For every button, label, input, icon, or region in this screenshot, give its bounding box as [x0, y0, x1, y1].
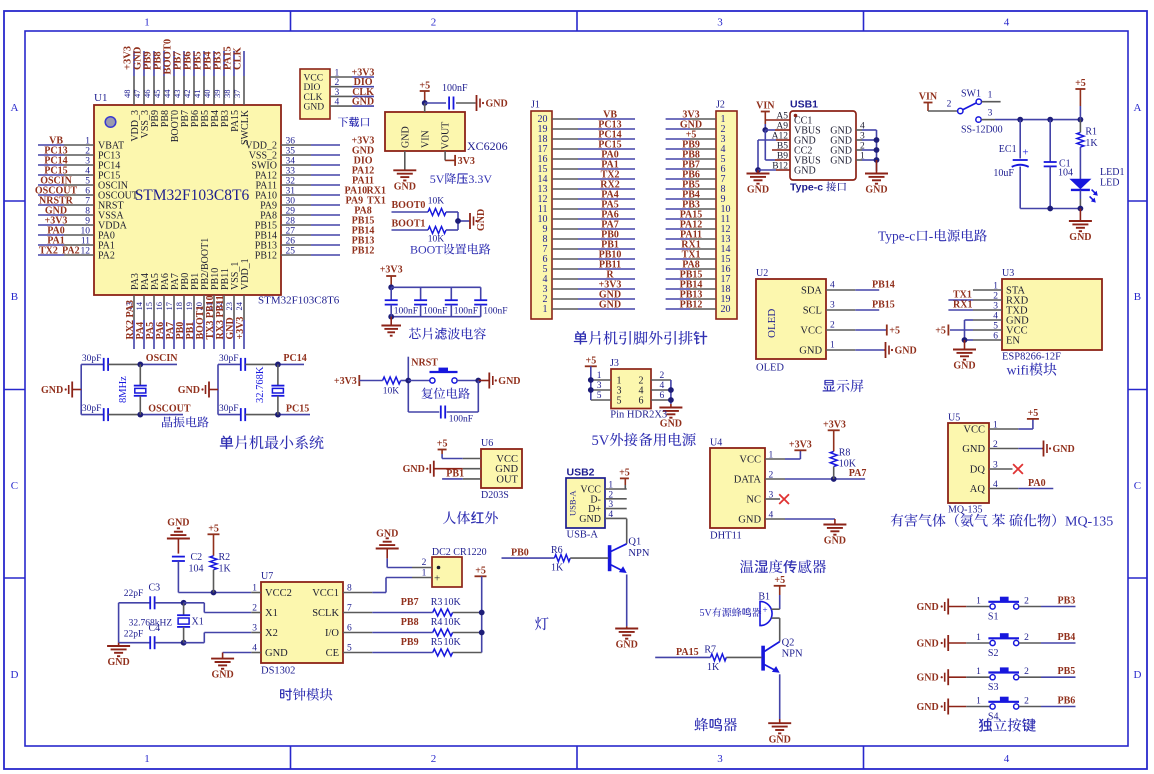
capacitor 100nF filter 2 — [420, 287, 422, 300]
svg-text:PC15: PC15 — [286, 403, 309, 414]
svg-text:1: 1 — [144, 17, 150, 29]
caption MCU pin headers — [574, 331, 588, 345]
svg-text:PB12: PB12 — [255, 251, 277, 262]
junction — [422, 100, 428, 106]
wire right gnd bus — [876, 130, 878, 171]
svg-text:R7: R7 — [704, 645, 716, 656]
svg-text:J1: J1 — [531, 100, 540, 111]
svg-text:23: 23 — [224, 302, 234, 311]
svg-text:2: 2 — [85, 147, 90, 157]
pin A12 wire — [776, 139, 790, 141]
svg-text:30pF: 30pF — [219, 354, 239, 364]
svg-text:MQ-135: MQ-135 — [1065, 515, 1113, 530]
net PB1 — [442, 478, 463, 480]
svg-text:R8: R8 — [839, 448, 851, 459]
wire bottom rail — [1020, 208, 1080, 210]
svg-text:PB15: PB15 — [872, 300, 895, 311]
svg-text:+5: +5 — [419, 81, 430, 92]
svg-text:6: 6 — [639, 396, 644, 407]
svg-text:USB-A: USB-A — [567, 530, 599, 541]
svg-text:PB4: PB4 — [1058, 632, 1076, 643]
svg-text:VCC1: VCC1 — [312, 588, 339, 599]
svg-text:DIO: DIO — [304, 83, 321, 93]
wire to X2 pin — [184, 642, 205, 644]
wire vcc2 — [178, 592, 251, 594]
pin GND wire — [973, 319, 1002, 321]
svg-text:1: 1 — [85, 137, 90, 147]
svg-text:4: 4 — [85, 167, 90, 177]
svg-text:6: 6 — [85, 187, 90, 197]
svg-text:1: 1 — [976, 697, 981, 707]
svg-text:SDA: SDA — [801, 286, 822, 297]
svg-text:GND: GND — [794, 166, 816, 177]
svg-text:10K: 10K — [383, 387, 400, 397]
caption xiazaikou — [338, 117, 348, 127]
svg-text:MQ-135: MQ-135 — [948, 505, 982, 516]
resistor R7 1K — [711, 654, 727, 661]
svg-text:PB9: PB9 — [401, 637, 419, 648]
connector download port — [300, 69, 330, 119]
svg-text:PB12: PB12 — [680, 300, 703, 311]
svg-text:104: 104 — [189, 564, 204, 575]
svg-text:DC2 CR1220: DC2 CR1220 — [432, 547, 487, 558]
svg-text:4: 4 — [1004, 753, 1010, 765]
net PB14 — [855, 289, 879, 291]
svg-text:GND: GND — [917, 673, 939, 684]
svg-text:10K: 10K — [839, 459, 857, 470]
svg-text:PB12: PB12 — [352, 246, 375, 257]
svg-text:8: 8 — [85, 207, 90, 217]
svg-text:35: 35 — [286, 147, 296, 157]
connector USB2 USB-A — [566, 478, 605, 528]
svg-text:104: 104 — [1058, 168, 1073, 179]
svg-text:1: 1 — [830, 341, 835, 351]
svg-text:47: 47 — [132, 90, 142, 99]
svg-text:38: 38 — [222, 90, 232, 99]
crystal — [139, 364, 141, 385]
svg-text:CE: CE — [326, 648, 339, 659]
svg-text:U6: U6 — [481, 438, 493, 449]
svg-text:1K: 1K — [1085, 138, 1098, 149]
svg-text:GND: GND — [769, 734, 791, 745]
resistor R5 10K — [433, 649, 453, 656]
svg-text:GND: GND — [352, 97, 374, 108]
capacitor C2 104 — [172, 556, 185, 558]
pin A5 stub — [765, 119, 790, 121]
svg-text:100nF: 100nF — [423, 307, 447, 317]
svg-text:VDD_1: VDD_1 — [240, 258, 251, 290]
wire left — [118, 603, 120, 643]
svg-text:GND: GND — [865, 185, 887, 196]
svg-text:PC14: PC14 — [283, 353, 306, 364]
svg-text:X1: X1 — [192, 617, 204, 628]
pin3 NC no-connect — [765, 498, 780, 500]
svg-text:+5: +5 — [619, 468, 630, 479]
svg-text:GND: GND — [167, 518, 189, 529]
caption display — [823, 380, 836, 392]
caption harmful gas MQ-135 — [891, 514, 904, 527]
svg-text:25: 25 — [286, 247, 296, 257]
svg-text:PA9: PA9 — [346, 196, 364, 207]
svg-text:DQ: DQ — [970, 465, 986, 476]
svg-text:22pF: 22pF — [124, 630, 144, 640]
svg-text:39: 39 — [212, 90, 222, 99]
svg-text:U5: U5 — [948, 413, 960, 424]
net top — [278, 363, 304, 365]
resistor 10K boot0 — [428, 209, 446, 216]
svg-text:2: 2 — [431, 17, 437, 29]
svg-text:XC6206: XC6206 — [467, 139, 508, 153]
svg-text:GND: GND — [1069, 232, 1091, 243]
svg-text:R2: R2 — [219, 552, 231, 563]
svg-text:+5: +5 — [475, 566, 486, 577]
svg-text:+3V3: +3V3 — [235, 317, 246, 340]
svg-text:USB-A: USB-A — [568, 490, 578, 516]
svg-text:+5: +5 — [1028, 408, 1039, 419]
svg-text:USB1: USB1 — [790, 99, 818, 111]
svg-text:LED: LED — [1100, 178, 1119, 189]
svg-text:PA0: PA0 — [1028, 478, 1046, 489]
U1 right pins 25-36 — [281, 144, 311, 146]
svg-text:100nF: 100nF — [483, 307, 507, 317]
pin VOUT to 3V3 — [444, 151, 446, 160]
svg-text:10uF: 10uF — [993, 168, 1014, 179]
svg-text:34: 34 — [286, 157, 296, 167]
ground — [834, 519, 836, 525]
svg-text:1: 1 — [543, 304, 548, 315]
ground — [71, 382, 73, 398]
svg-text:DATA: DATA — [734, 475, 762, 486]
transistor Q1 NPN — [608, 545, 612, 571]
pir sensor U6 D203S — [481, 449, 522, 488]
svg-text:C: C — [1134, 480, 1141, 492]
svg-text:S3: S3 — [988, 682, 999, 693]
caption human infrared — [443, 511, 456, 524]
svg-text:EC1: EC1 — [999, 144, 1017, 155]
svg-text:PB8: PB8 — [401, 617, 419, 628]
svg-text:D203S: D203S — [481, 490, 509, 501]
svg-text:VCC: VCC — [963, 425, 985, 436]
crystal — [277, 364, 279, 385]
svg-text:R6: R6 — [551, 545, 563, 556]
svg-text:20: 20 — [721, 304, 731, 315]
svg-text:GND: GND — [962, 444, 985, 455]
svg-text:VIN: VIN — [421, 130, 432, 148]
svg-text:8MHz: 8MHz — [118, 376, 129, 403]
pin A9 wire — [765, 129, 775, 131]
svg-text:U1: U1 — [94, 92, 107, 104]
svg-text:Type-c: Type-c — [878, 229, 915, 244]
battery DC2 CR1220 — [432, 557, 462, 587]
ground right — [876, 160, 878, 174]
caption chip filter caps — [409, 328, 421, 339]
capacitor C1 104 — [1049, 120, 1051, 162]
svg-text:PB6: PB6 — [1058, 696, 1076, 707]
svg-text:GND: GND — [799, 346, 822, 357]
svg-text:-: - — [929, 229, 934, 244]
connector J3 Pin HDR2X3 — [611, 369, 651, 409]
ground — [433, 461, 435, 477]
svg-text:J2: J2 — [716, 100, 725, 111]
svg-text:GND: GND — [824, 536, 846, 547]
resistor 10K boot1 — [428, 227, 446, 234]
svg-text:48: 48 — [122, 90, 132, 99]
svg-text:PB3: PB3 — [1058, 596, 1076, 607]
svg-text:R3: R3 — [431, 597, 443, 608]
svg-text:6: 6 — [660, 391, 665, 401]
ground — [1079, 209, 1081, 222]
svg-text:5V: 5V — [592, 433, 610, 449]
svg-text:28: 28 — [286, 217, 296, 227]
svg-text:PB5: PB5 — [1058, 666, 1076, 677]
ground left — [757, 170, 759, 174]
gas sensor U5 MQ-135 — [948, 423, 989, 503]
svg-text:C3: C3 — [149, 583, 161, 594]
svg-text:D: D — [11, 669, 19, 681]
svg-text:1: 1 — [976, 667, 981, 677]
svg-text:1K: 1K — [707, 662, 720, 673]
svg-text:2: 2 — [1024, 597, 1029, 607]
svg-text:S2: S2 — [988, 648, 999, 659]
svg-text:PA15: PA15 — [676, 647, 699, 658]
svg-text:3: 3 — [717, 753, 723, 765]
caption clock module — [280, 688, 292, 700]
svg-text:PA2: PA2 — [62, 246, 80, 257]
wire — [928, 110, 958, 112]
svg-text:+5: +5 — [437, 439, 448, 450]
svg-text:A: A — [11, 102, 19, 114]
svg-text:1K: 1K — [219, 564, 232, 575]
svg-text:26: 26 — [286, 237, 296, 247]
sensor U4 DHT11 — [710, 448, 765, 528]
svg-text:2: 2 — [660, 371, 665, 381]
capacitor 100nF filter 4 — [480, 287, 482, 300]
caption MCU minimum system — [220, 436, 234, 450]
ground — [670, 404, 672, 408]
svg-text:32: 32 — [286, 177, 296, 187]
wire left vertical — [80, 364, 82, 414]
svg-text:4: 4 — [1004, 17, 1010, 29]
net bottom — [140, 414, 183, 416]
svg-text:R1: R1 — [1085, 127, 1097, 138]
net top — [140, 363, 177, 365]
svg-text:100nF: 100nF — [442, 83, 468, 94]
svg-text:PB14: PB14 — [872, 280, 895, 291]
svg-text:OSCIN: OSCIN — [146, 353, 178, 364]
svg-text:R5: R5 — [431, 637, 443, 648]
svg-text:3: 3 — [335, 88, 340, 98]
svg-text:+3V3: +3V3 — [789, 440, 812, 451]
svg-text:TX2: TX2 — [39, 246, 58, 257]
net PB6 — [1041, 706, 1076, 708]
svg-text:1: 1 — [597, 371, 602, 381]
svg-text:3.3V: 3.3V — [468, 172, 492, 186]
transistor Q2 NPN — [761, 646, 765, 671]
ground — [469, 213, 471, 229]
connector J1 — [531, 111, 552, 319]
wire collector — [779, 618, 781, 642]
svg-text:1: 1 — [976, 597, 981, 607]
regulator XC6206 — [385, 112, 465, 151]
svg-text:C2: C2 — [191, 552, 203, 563]
svg-text:SS-12D00: SS-12D00 — [961, 125, 1003, 136]
svg-text:2: 2 — [431, 753, 437, 765]
svg-text:NC: NC — [746, 495, 761, 506]
svg-text:+: + — [763, 605, 768, 615]
svg-text:D: D — [1134, 669, 1142, 681]
svg-text:GND: GND — [917, 702, 939, 713]
ground — [476, 95, 478, 111]
svg-text:10: 10 — [81, 227, 91, 237]
svg-text:17: 17 — [164, 302, 174, 311]
caption lamp — [535, 617, 549, 630]
net PB4 — [1041, 642, 1076, 644]
ground — [118, 643, 120, 646]
svg-text:PB7: PB7 — [401, 597, 419, 608]
svg-text:1: 1 — [988, 91, 993, 101]
capacitor 100nF — [425, 102, 446, 104]
svg-text:100nF: 100nF — [394, 307, 418, 317]
svg-text:Q1: Q1 — [628, 537, 641, 548]
pin EN wire — [973, 339, 1002, 341]
svg-text:NRST: NRST — [411, 358, 438, 369]
caption temp-humidity sensor — [740, 560, 754, 573]
svg-text:PA2: PA2 — [98, 251, 115, 262]
svg-text:GND: GND — [403, 464, 425, 475]
svg-text:CLK: CLK — [233, 46, 244, 70]
svg-text:10K: 10K — [428, 197, 445, 207]
svg-text:+: + — [1022, 147, 1028, 159]
svg-text:OLED: OLED — [766, 309, 778, 338]
svg-text:U7: U7 — [261, 571, 273, 582]
svg-text:VCC: VCC — [739, 455, 761, 466]
svg-text:12: 12 — [81, 247, 91, 257]
U1 top pins 37-48 — [133, 76, 135, 105]
svg-text:5: 5 — [85, 177, 90, 187]
pin B5 stub — [772, 149, 790, 151]
net PB0 — [502, 557, 555, 559]
net TX1 — [973, 299, 1002, 301]
svg-text:Pin HDR2X3: Pin HDR2X3 — [610, 410, 667, 421]
svg-text:VOUT: VOUT — [441, 122, 452, 150]
net PB15 — [855, 309, 879, 311]
svg-text:30pF: 30pF — [219, 404, 239, 414]
R3 R4 R5 pullups to +5 — [343, 612, 372, 614]
svg-text:3V3: 3V3 — [458, 156, 475, 167]
caption independent buttons — [979, 718, 992, 731]
ground — [390, 317, 392, 326]
pin2 wire to gnd — [989, 448, 1018, 450]
svg-text:1: 1 — [335, 69, 340, 79]
svg-text:STM32F103C8T6: STM32F103C8T6 — [258, 295, 340, 307]
svg-text:GND: GND — [212, 670, 234, 681]
svg-text:SCL: SCL — [803, 306, 822, 317]
svg-text:GND: GND — [917, 639, 939, 650]
svg-text:32.768K: 32.768K — [255, 366, 266, 403]
pin B9 wire — [765, 159, 775, 161]
svg-text:+5: +5 — [935, 326, 946, 337]
svg-text:24: 24 — [234, 301, 244, 310]
svg-text:3: 3 — [85, 157, 90, 167]
svg-text:X2: X2 — [265, 628, 278, 639]
svg-text:100nF: 100nF — [454, 307, 478, 317]
svg-text:VCC: VCC — [304, 74, 324, 84]
svg-text:1: 1 — [144, 753, 150, 765]
wire emitter — [626, 575, 628, 627]
svg-text:GND: GND — [1053, 444, 1075, 455]
svg-text:27: 27 — [286, 227, 296, 237]
svg-text:44: 44 — [162, 89, 172, 98]
svg-text:PB0: PB0 — [511, 548, 529, 559]
capacitor 100nF filter 1 — [390, 287, 392, 300]
svg-text:VCC: VCC — [800, 326, 822, 337]
pin B12 wire — [776, 169, 790, 171]
svg-text:GND: GND — [917, 602, 939, 613]
svg-text:STM32F103C8T6: STM32F103C8T6 — [135, 187, 250, 204]
svg-text:GND: GND — [394, 181, 416, 192]
svg-text:+5: +5 — [774, 575, 785, 586]
svg-text:GND: GND — [178, 385, 200, 396]
wire to X1 pin — [184, 602, 205, 604]
svg-text:GND: GND — [265, 648, 288, 659]
svg-text:15: 15 — [144, 302, 154, 311]
mcu U1 STM32F103C8T6 — [94, 105, 281, 295]
svg-text:BOOT1: BOOT1 — [392, 219, 426, 230]
svg-text:5: 5 — [617, 396, 622, 407]
pin GND wire — [251, 652, 261, 654]
svg-text:10K: 10K — [444, 637, 462, 648]
svg-text:5: 5 — [597, 391, 602, 401]
pin 1 stub — [973, 289, 1002, 291]
svg-text:VCC2: VCC2 — [265, 588, 292, 599]
net PB3 — [1041, 606, 1076, 608]
caption reset circuit — [422, 387, 433, 399]
svg-text:U2: U2 — [756, 268, 768, 279]
svg-text:31: 31 — [286, 187, 296, 197]
svg-text:B: B — [11, 291, 18, 303]
pin1 wire to +3V3 — [765, 458, 785, 460]
svg-text:11: 11 — [81, 237, 90, 247]
svg-text:ESP8266-12F: ESP8266-12F — [1002, 352, 1061, 363]
display U2 OLED — [756, 279, 826, 359]
svg-text:Q2: Q2 — [782, 638, 795, 649]
svg-text:16: 16 — [154, 302, 164, 311]
net PA15 — [655, 656, 710, 658]
net NRST — [407, 357, 409, 412]
pin3 DQ no-connect — [989, 468, 1013, 470]
pin4 AQ net PA0 — [989, 488, 1018, 490]
caption crystal circuit — [162, 417, 172, 428]
svg-text:+5: +5 — [208, 524, 219, 535]
svg-text:+5: +5 — [889, 326, 900, 337]
svg-text:B: B — [1134, 291, 1141, 303]
svg-text:4: 4 — [660, 381, 665, 391]
svg-text:GND: GND — [616, 640, 638, 651]
svg-text:7: 7 — [85, 197, 90, 207]
svg-text:GND: GND — [895, 346, 917, 357]
svg-text:2: 2 — [335, 78, 340, 88]
svg-text:GND: GND — [486, 99, 508, 110]
connector J2 — [716, 111, 737, 319]
power +5 — [973, 329, 1002, 331]
pin GND to ground — [404, 151, 406, 170]
svg-text:2: 2 — [1024, 633, 1029, 643]
svg-text:I/O: I/O — [325, 628, 339, 639]
svg-text:EN: EN — [1006, 336, 1020, 347]
resistor 10K — [383, 377, 401, 384]
svg-text:DHT11: DHT11 — [710, 531, 742, 542]
resistor R4 10K — [433, 629, 453, 636]
